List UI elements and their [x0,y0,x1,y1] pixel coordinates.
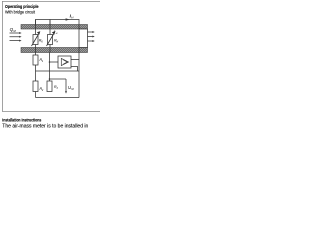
svg-text:Operating principle: Operating principle [5,4,39,9]
svg-text:M: M [13,29,16,33]
svg-text:H: H [56,40,58,43]
svg-text:3: 3 [56,87,58,90]
svg-text:1: 1 [42,60,44,63]
svg-text:With bridge circuit: With bridge circuit [5,9,36,14]
svg-text:2: 2 [41,89,44,92]
svg-text:M: M [71,87,74,91]
svg-text:H: H [71,16,74,20]
svg-text:K: K [41,40,43,43]
svg-text:The air-mass meter is to be in: The air-mass meter is to be installed in [2,124,88,130]
svg-text:H: H [56,33,58,35]
